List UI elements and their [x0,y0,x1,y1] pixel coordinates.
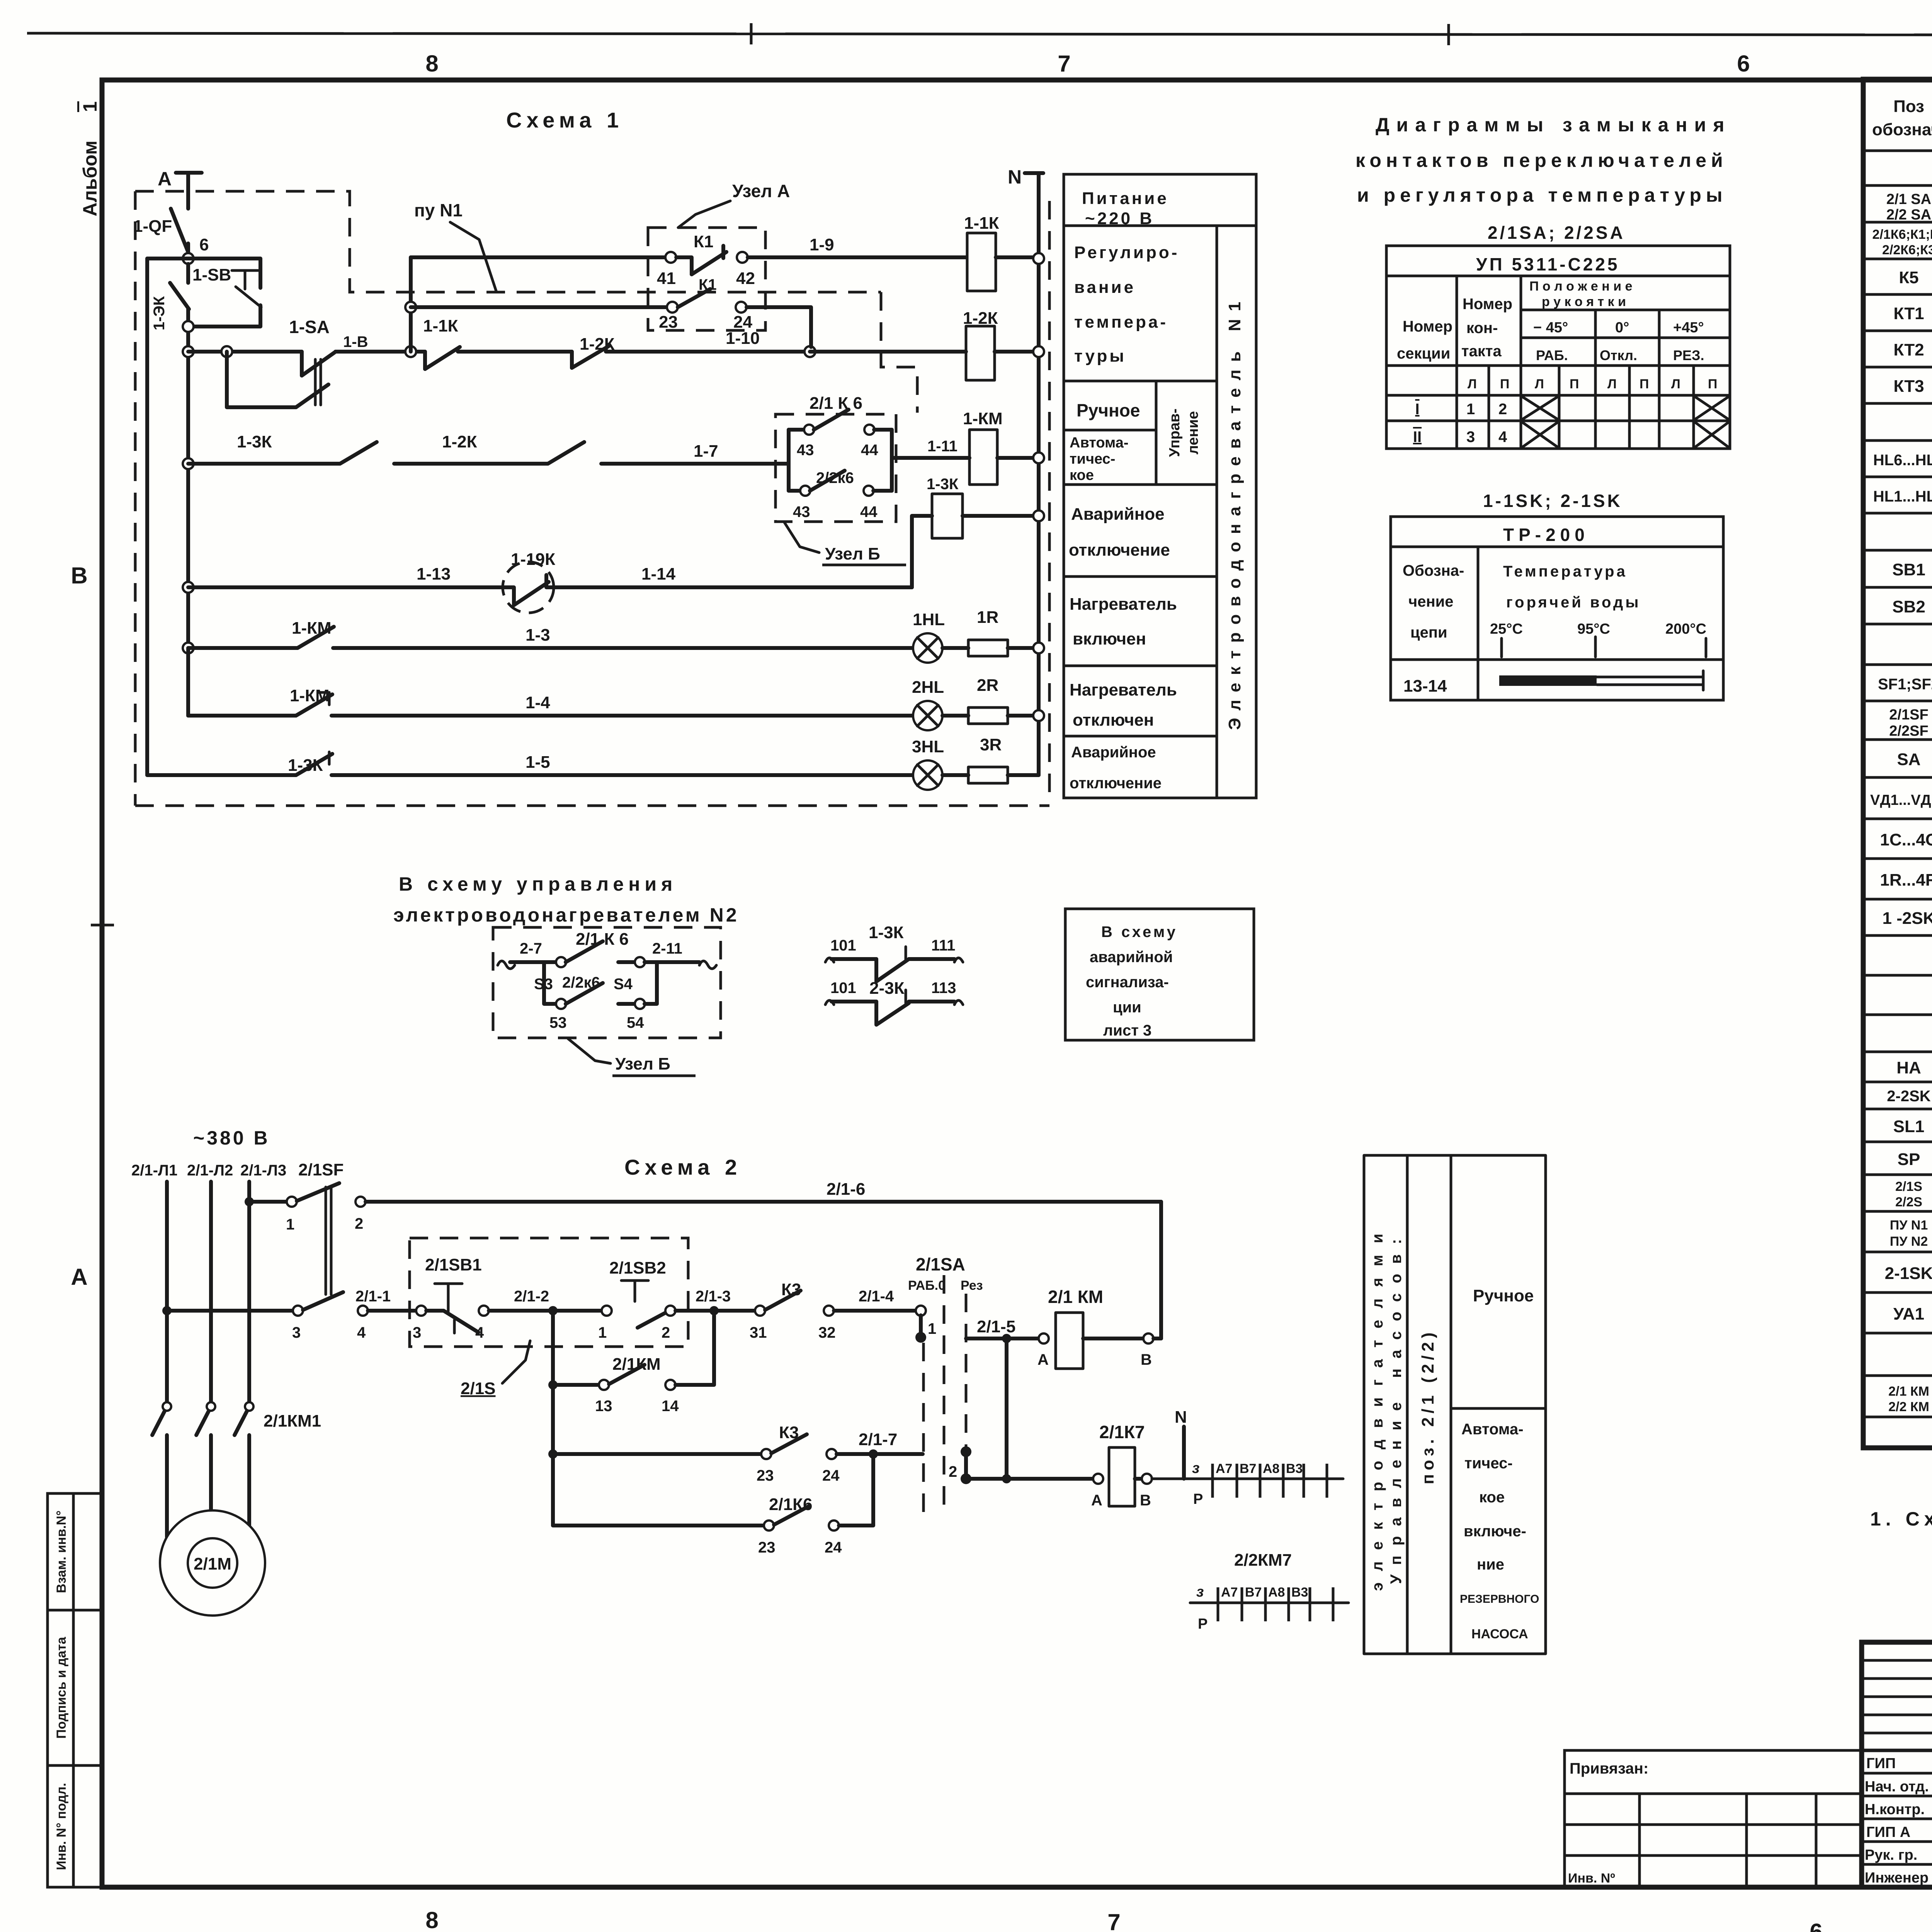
contact 1-1K (NO) [423,316,572,369]
svg-text:РЕЗ.: РЕЗ. [1673,347,1704,363]
stop button 2/1SB1 (NC) [413,1255,489,1341]
svg-text:сигнализа-: сигнализа- [1086,974,1169,991]
svg-text:S3: S3 [534,976,553,993]
svg-text:1: 1 [598,1324,607,1341]
wire left bar [787,430,791,491]
svg-text:А: А [71,1264,87,1290]
svg-text:2-1SK: 2-1SK [1885,1264,1932,1283]
svg-text:7: 7 [1107,1909,1120,1932]
svg-text:24: 24 [822,1467,840,1484]
svg-text:Обозна-: Обозна- [1403,562,1464,579]
wire rung 910 mid [335,350,425,354]
svg-text:2/1S: 2/1S [461,1379,496,1398]
svg-text:1-SB: 1-SB [192,265,231,284]
svg-text:2/1 К 6: 2/1 К 6 [810,394,862,413]
node pin 42 [736,252,755,288]
svg-text:2/1 К 6: 2/1 К 6 [576,930,629,949]
node 1063-795 [405,302,416,313]
svg-text:3R: 3R [980,735,1002,754]
connector row 2/2КМ7 (reserve pump) [1190,1551,1349,1632]
svg-text:Инв. N° подл.: Инв. N° подл. [54,1783,69,1870]
node 2096-910 [804,346,815,357]
svg-text:2/1SF: 2/1SF [298,1160,344,1179]
svg-text:2/1SF: 2/1SF [1889,707,1928,723]
wire rung 1200 [188,462,340,466]
svg-text:1HL: 1HL [913,610,945,629]
svg-text:3HL: 3HL [912,737,944,756]
node A (phase input) [158,168,202,209]
component list table [1863,79,1932,1448]
svg-text:2/1SA; 2/2SA: 2/1SA; 2/2SA [1488,223,1625,243]
svg-text:2/1SA: 2/1SA [916,1254,965,1274]
svg-text:Управ-: Управ- [1167,408,1183,457]
svg-text:2/1М: 2/1М [194,1554,231,1573]
breaker 2/1SF pole 2 [167,1292,368,1341]
svg-text:14: 14 [662,1398,679,1415]
resistor 1R [942,608,1033,656]
svg-text:2/1-3: 2/1-3 [696,1288,731,1305]
node V2-1677 [183,643,194,653]
svg-text:А8: А8 [1263,1461,1279,1476]
svg-text:4: 4 [357,1324,366,1341]
svg-text:1С...4С: 1С...4С [1880,830,1932,849]
svg-text:электродвигателями: электродвигателями [1369,1222,1386,1591]
svg-text:2-2SK: 2-2SK [1887,1088,1930,1105]
svg-text:2/2SF: 2/2SF [1889,723,1928,739]
signature column grid upper rows [1862,1642,1932,1887]
svg-text:~380 В: ~380 В [193,1127,270,1149]
node function table (Питание 220В) [1064,174,1256,798]
svg-text:SF1;SF2: SF1;SF2 [1878,676,1932,693]
svg-text:В7: В7 [1245,1585,1262,1600]
svg-text:К5: К5 [1899,268,1918,287]
svg-text:44: 44 [860,503,878,520]
svg-text:аварийной: аварийной [1090,949,1173,966]
svg-text:Альбом: Альбом [79,141,101,216]
wire exit squiggle right [645,961,716,969]
riser wire to K1 contacts [409,257,413,352]
svg-text:2/1К6: 2/1К6 [769,1495,813,1514]
svg-text:2/1-Л1: 2/1-Л1 [131,1162,177,1179]
svg-text:1-QF: 1-QF [133,217,172,236]
svg-text:2/1К7: 2/1К7 [1099,1422,1145,1442]
svg-text:2/1-4: 2/1-4 [859,1288,894,1305]
wire lower row to relay 2/1К7 [966,1338,1093,1483]
svg-text:2/1-6: 2/1-6 [827,1180,865,1199]
lamp 1HL [913,610,945,663]
relay coil 2/1К7 [1091,1422,1152,1509]
svg-text:8: 8 [425,1907,438,1932]
svg-text:1-ЭК: 1-ЭК [151,296,168,330]
wire rung to coil 1-КМ, label 1-11 [892,438,969,458]
svg-text:Рук. гр.: Рук. гр. [1865,1847,1917,1863]
relay coil 1-2K [963,309,1033,380]
svg-text:1-1SK; 2-1SK: 1-1SK; 2-1SK [1483,491,1622,511]
node block Узел Б contacts (dashed box) [776,414,896,522]
contact K1 (NC, 41-42) [676,232,726,274]
svg-text:1: 1 [286,1216,294,1233]
svg-text:1-SA: 1-SA [289,317,330,337]
contactor coil 2/1КМ [1037,1287,1161,1369]
wire phase L3 [247,1182,251,1402]
contact 1-19K in circle [503,550,555,613]
svg-text:2/1-1: 2/1-1 [355,1288,391,1305]
svg-text:Аварийное: Аварийное [1071,744,1156,761]
svg-text:Нагреватель: Нагреватель [1070,680,1177,699]
label 2/1S with leader [461,1341,530,1398]
contact 1-ЭК (NO, in V2) [151,264,189,716]
svg-text:2/1S: 2/1S [1895,1179,1922,1194]
svg-text:SP: SP [1898,1150,1920,1169]
svg-text:НАСОСА: НАСОСА [1471,1627,1528,1641]
svg-text:1-3: 1-3 [526,626,550,645]
svg-text:2/1К6;К1;К4: 2/1К6;К1;К4 [1872,227,1932,242]
svg-text:1-13: 1-13 [417,565,451,583]
svg-text:Номер: Номер [1463,296,1512,313]
svg-text:2/1-2: 2/1-2 [514,1288,549,1305]
svg-text:А: А [158,168,172,190]
svg-text:1-КМ: 1-КМ [290,686,330,705]
svg-text:Узел А: Узел А [732,181,790,201]
svg-text:2: 2 [1498,401,1507,418]
relay coil 1-1K [964,214,1033,291]
svg-text:25°С: 25°С [1490,621,1523,637]
wire left bus V1 [145,259,149,775]
svg-text:1-9: 1-9 [810,235,834,254]
svg-text:1: 1 [928,1320,936,1337]
node V2-1200 [183,458,194,469]
svg-text:лист 3: лист 3 [1103,1022,1151,1039]
svg-text:Управление насосов:: Управление насосов: [1388,1229,1405,1584]
wire phase L2 [209,1182,213,1402]
wire phase L1 [165,1182,169,1402]
wire rung 910 left part [188,350,302,354]
svg-text:101: 101 [830,980,856,997]
node V2-1520 [183,582,194,593]
svg-text:цепи: цепи [1410,624,1447,641]
svg-text:з: з [1196,1584,1204,1600]
svg-text:113: 113 [931,980,956,997]
contact К3 (NO, 31-32) [750,1280,836,1341]
svg-text:Ручное: Ручное [1077,400,1140,420]
svg-text:Подпись и дата: Подпись и дата [54,1636,69,1739]
junction L1 control branch [162,1306,172,1315]
svg-text:П: П [1639,377,1649,391]
wire 2-7 [510,940,556,962]
svg-text:контактов переключателей: контактов переключателей [1355,150,1728,171]
svg-text:23: 23 [659,313,678,332]
wire 1-9 to coil [748,235,966,257]
svg-text:В: В [71,563,87,588]
svg-text:1 -2SK: 1 -2SK [1883,909,1932,928]
contact 2/2К6 (NO) [789,469,892,520]
svg-text:В схему управления: В схему управления [399,873,677,895]
svg-text:поз. 2/1 (2/2): поз. 2/1 (2/2) [1418,1328,1437,1484]
svg-text:23: 23 [757,1467,774,1484]
svg-text:кон-: кон- [1466,320,1498,337]
svg-text:вание: вание [1074,278,1136,297]
svg-text:1-3К: 1-3К [237,432,272,451]
svg-text:ГИП: ГИП [1866,1755,1896,1772]
svg-text:2: 2 [662,1324,670,1341]
node pin 41 [657,252,676,288]
wire V2 to rung 1852 [186,648,190,716]
svg-text:2/1 SA: 2/1 SA [1886,191,1931,207]
svg-text:РЕЗЕРВНОГО: РЕЗЕРВНОГО [1460,1593,1539,1605]
svg-text:SB2: SB2 [1892,597,1925,616]
breaker 2/1SF pole 1 [249,1183,366,1294]
svg-text:1-14: 1-14 [641,565,676,583]
svg-text:1: 1 [1466,401,1475,418]
svg-text:А: А [1037,1351,1049,1368]
svg-text:13-14: 13-14 [1403,677,1447,696]
push button 1-SB (NC) [188,265,261,327]
svg-text:Н.контр.: Н.контр. [1865,1801,1925,1818]
node V2-845 [183,321,194,332]
svg-text:1-B: 1-B [343,333,368,350]
svg-text:Номер: Номер [1403,318,1452,335]
svg-text:31: 31 [750,1324,767,1341]
wire 101-111 with contact 1-3К (NC) [825,923,963,981]
svg-text:и регулятора температуры: и регулятора температуры [1357,184,1727,206]
svg-text:1. Схема выполнена на 2х ли: 1. Схема выполнена на 2х листах: 3 и 4 [1870,1504,1932,1530]
svg-text:2/1 КМ: 2/1 КМ [1048,1287,1103,1307]
wire to control box [368,1309,416,1313]
temperature relay diagram ТР-200 [1391,517,1723,700]
neutral bus N [1008,166,1043,775]
wire 2/1-5 to coil [966,1317,1039,1343]
svg-text:24: 24 [825,1539,842,1556]
svg-text:1-3К: 1-3К [288,756,323,775]
contact 1-2K (NO) [572,335,810,368]
svg-text:Схема 2: Схема 2 [624,1155,742,1179]
svg-text:ТР-200: ТР-200 [1503,525,1589,545]
svg-text:ПУ N1: ПУ N1 [1890,1218,1928,1233]
node block Узел А (dashed) [648,228,765,330]
svg-text:Аварийное: Аварийное [1071,505,1165,524]
wire rung 1520 (1-13 / 1-14) [188,565,503,587]
svg-text:2R: 2R [977,676,998,695]
svg-text:SL1: SL1 [1893,1117,1925,1136]
svg-text:2HL: 2HL [912,678,944,697]
svg-text:4: 4 [475,1324,484,1341]
svg-text:32: 32 [818,1324,836,1341]
start button 2/1SB2 (NO) [598,1259,675,1341]
node N-669 [1033,253,1044,264]
svg-text:2/1 КМ: 2/1 КМ [1888,1384,1929,1399]
contact 2/1К6 (NO) [566,930,635,962]
svg-text:НА: НА [1896,1058,1921,1077]
node N-1335 [1033,510,1044,521]
svg-text:1-3К: 1-3К [927,476,959,493]
switch 1-SA (two poles with link) [227,317,335,407]
svg-text:41: 41 [657,269,676,288]
contactor main contacts 2/1КМ1 [152,1402,321,1435]
lamp 2HL [912,678,944,730]
svg-text:2/1-Л3: 2/1-Л3 [240,1162,286,1179]
svg-text:II: II [1413,429,1422,446]
svg-text:2/1SB2: 2/1SB2 [609,1259,666,1277]
circuit breaker 1-QF [133,209,189,256]
svg-text:2: 2 [949,1463,957,1480]
svg-text:3: 3 [1466,429,1475,446]
svg-text:S4: S4 [614,976,633,993]
svg-text:1-19К: 1-19К [511,550,555,569]
contact 1-2K (NO, rung 1200) [442,432,789,464]
relay coil 1-КМ [963,409,1033,485]
label Узел Б with leader and underline [568,1039,696,1076]
svg-text:4: 4 [1498,429,1507,446]
svg-text:3: 3 [413,1324,421,1341]
svg-text:2-7: 2-7 [520,940,542,957]
svg-text:В схему: В схему [1101,923,1178,940]
svg-text:1: 1 [79,101,101,112]
svg-text:включе-: включе- [1464,1523,1526,1540]
svg-text:Поз: Поз [1893,97,1924,116]
svg-text:ление: ление [1185,411,1201,454]
motor 2/1М [160,1510,265,1616]
svg-text:ние: ние [1477,1556,1504,1573]
lamp 3HL [912,737,944,790]
svg-text:Схема 1: Схема 1 [506,108,623,132]
svg-text:2/2К6;К3: 2/2К6;К3 [1882,243,1932,257]
wire line 1-9 [411,255,665,259]
svg-text:такта: такта [1461,343,1502,360]
svg-text:Инв. Nº: Инв. Nº [1568,1871,1615,1886]
svg-text:1-3К: 1-3К [869,923,904,942]
svg-text:43: 43 [793,503,810,520]
wire and node 2/1-2 [489,1288,602,1315]
svg-text:1R: 1R [977,608,998,627]
svg-text:2: 2 [355,1215,363,1232]
svg-text:2/2 SA: 2/2 SA [1886,207,1931,223]
svg-text:РАБ.0: РАБ.0 [908,1278,946,1293]
svg-text:1-4: 1-4 [526,693,550,712]
node V2-910 [183,346,194,357]
svg-text:1-1К: 1-1К [964,214,999,233]
node N-1677 [1033,643,1044,653]
node block Узел Б (to scheme N2) dashed box [493,927,721,1038]
wire 23-24 down to rung [747,307,811,347]
svg-text:Температура: Температура [1503,563,1628,580]
wire down to lower branches [551,1385,555,1526]
resistor 3R [942,735,1039,783]
holding contact 2/1КМ (NO, 13-14) [548,1311,714,1415]
svg-text:А7: А7 [1216,1461,1232,1476]
svg-text:Откл.: Откл. [1600,347,1637,363]
wire 2/1-4 [834,1288,926,1316]
svg-text:N: N [1008,166,1022,188]
svg-text:УП 5311-С225: УП 5311-С225 [1476,254,1620,274]
wire right bar [890,430,894,491]
svg-text:1-11: 1-11 [927,438,957,455]
svg-text:53: 53 [549,1014,567,1031]
svg-text:горячей воды: горячей воды [1506,594,1641,611]
svg-text:1R...4R: 1R...4R [1880,871,1932,889]
svg-text:95°С: 95°С [1577,621,1610,637]
svg-text:В3: В3 [1286,1461,1303,1476]
svg-text:+45°: +45° [1673,320,1704,336]
node 2 on Рез line [949,1446,971,1484]
svg-text:КТ1: КТ1 [1893,304,1924,323]
pult boundary ПУ N1 (dashed) [135,191,1049,806]
contact 2/1К6 (NO, 23-24) [553,1454,873,1556]
svg-text:КТ2: КТ2 [1893,340,1924,359]
binding box Привязан [1565,1750,1862,1887]
svg-text:Нагреватель: Нагреватель [1070,595,1177,614]
svg-text:секции: секции [1397,345,1450,362]
wire 2/1-6 top rail [366,1180,1161,1338]
svg-text:SA: SA [1897,750,1920,769]
svg-text:П: П [1500,377,1509,391]
svg-text:7: 7 [1058,51,1070,77]
svg-text:2/2 КМ: 2/2 КМ [1888,1400,1929,1414]
svg-text:Взам. инв.N°: Взам. инв.N° [54,1510,69,1593]
node riser bottom 1063-910 [405,346,416,357]
svg-text:Регулиро-: Регулиро- [1074,243,1179,262]
node 587-910 [221,346,232,357]
connector row 2/1КМ7 terminals [1152,1460,1343,1507]
svg-text:РАБ.: РАБ. [1536,347,1568,363]
node 2-11 [635,940,682,967]
svg-text:1-КМ: 1-КМ [963,409,1003,428]
wire node6 to 1-SB box [147,259,260,288]
wire entry squiggle left [498,961,515,969]
svg-text:П: П [1570,377,1579,391]
svg-text:Электроводонагреватель N1: Электроводонагреватель N1 [1225,294,1244,730]
contact K1 (NO, 23-24) [678,276,717,307]
svg-text:кое: кое [1479,1489,1505,1506]
control station 2/1S dashed box [410,1238,688,1347]
contact 1-3K (NO) [237,432,548,464]
svg-text:101: 101 [830,937,856,954]
svg-text:43: 43 [797,442,814,459]
svg-text:туры: туры [1074,347,1126,366]
svg-text:р у к о я т к и: р у к о я т к и [1542,294,1626,309]
pump control header box (rotated) [1364,1155,1546,1654]
wire branch S3 2/2К6 S4 [534,962,657,1031]
svg-text:ПУ N2: ПУ N2 [1890,1234,1928,1249]
svg-text:отключение: отключение [1069,541,1170,560]
svg-text:8: 8 [425,51,438,77]
svg-text:N: N [1175,1408,1187,1427]
wire line 23-24 [411,305,667,309]
svg-text:К1: К1 [694,232,713,251]
svg-text:1-2К: 1-2К [442,432,477,451]
svg-text:включен: включен [1073,629,1146,648]
svg-text:электроводонагревателем N2: электроводонагревателем N2 [393,904,739,926]
wire to coil 1-2K [810,350,966,354]
label ПУ N1 with leader [414,200,497,292]
resistor 2R [942,676,1033,724]
svg-text:Р: Р [1198,1616,1207,1632]
svg-text:1-КМ: 1-КМ [292,619,332,638]
selector switch 2/1SA (dashed position lines) [908,1254,983,1515]
wire rung 2006 (1-5) [147,752,913,775]
node 1 on РАБ line [915,1315,936,1343]
contact К3 (NO, 23-24) row 2/1-7 [548,1423,923,1484]
svg-text:ции: ции [1113,999,1141,1016]
node pin 24 [733,302,752,332]
svg-text:1-1К: 1-1К [423,316,458,335]
node N-1185 [1033,452,1044,463]
svg-text:2/1SB1: 2/1SB1 [425,1255,482,1274]
svg-text:УА1: УА1 [1893,1304,1924,1323]
svg-text:П: П [1708,377,1717,391]
contact 2/1К6 (NO) [789,394,892,459]
svg-text:з: з [1192,1460,1199,1476]
svg-text:Узел Б: Узел Б [615,1054,670,1073]
